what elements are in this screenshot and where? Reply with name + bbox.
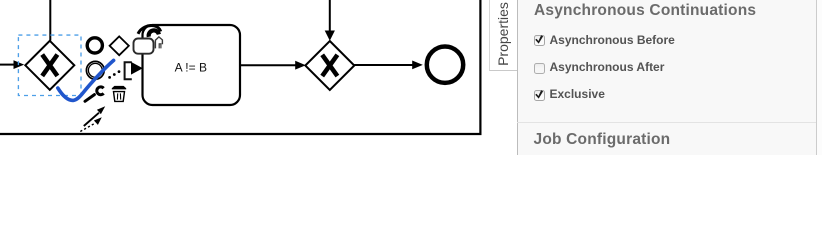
end event E1 [427,46,463,82]
context pad icon: trash (delete) [112,86,126,90]
wire: gateway G2 to end event [354,64,413,66]
panel right scrollbar strip [816,0,822,155]
gateway G1 X marker [42,55,57,76]
wire: incoming flow from left into gateway G1 [0,64,15,66]
task T1 "A != B" [143,25,241,105]
context pad icon: append end event [87,38,102,53]
wire: vertical flow at top into gateway G1 [49,0,51,41]
wire: task T1 to gateway G2 [240,64,297,66]
context pad icon: append intermediate event (double circle) [86,61,104,79]
svg-text:A != B: A != B [175,61,207,75]
BPMN diagram canvas [0,0,822,155]
gateway G1 (exclusive) [25,41,74,90]
wire: vertical flow into gateway G2 top [329,0,331,32]
context pad icon: append gateway [110,36,129,55]
context pad icon: text annotation bracket [125,62,132,79]
context pad icon: append task [134,39,154,54]
checkmark row 3 [533,87,546,101]
cursor: small lock/body outline [155,37,162,49]
context pad icon: arrow triangle [131,62,143,75]
divider [517,122,816,123]
selection outline (dashed) around G1 [18,35,81,95]
checkmark row 1 [533,32,546,46]
checkbox row 1: Asynchronous Before (checked) [534,35,545,46]
checkbox row 3: Exclusive (checked) [534,90,545,101]
properties tab [489,0,518,71]
context pad icon: connect (dotted diagonal) [108,70,120,79]
heading: Asynchronous Continuations [534,2,756,20]
cursor: crescent badge [149,30,159,36]
cursor: curved arrow [138,26,161,34]
canvas/subprocess border [0,0,480,134]
palette icon: dashed arrow [80,123,95,131]
palette icon: solid arrow [84,113,99,126]
gateway G2 (exclusive) [305,41,354,90]
checkbox row 2: Asynchronous After (unchecked) [534,63,545,74]
context pad icon: wrench (replace) [85,95,94,102]
blue tick (hand-drawn) [58,60,114,100]
gateway G2 X marker [322,55,337,76]
heading: Job Configuration [534,131,671,149]
properties panel background [517,0,822,155]
